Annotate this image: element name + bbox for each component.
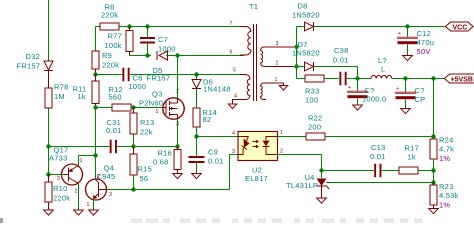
resistor R15 56 [130,147,152,190]
svg-text:FR157: FR157 [17,62,41,71]
capacitor C13 0.01 [370,143,386,177]
junction R15 bottom [131,187,135,191]
svg-text:4: 4 [234,94,237,100]
power flag VCC [446,22,474,32]
junction R9/R11/C6 [93,72,97,76]
svg-text:1%: 1% [439,201,450,210]
svg-text:22k: 22k [140,128,153,137]
svg-text:1: 1 [80,158,83,164]
svg-text:+5VSB: +5VSB [451,77,473,84]
svg-text:R77: R77 [108,32,123,41]
diode D5 FR157 [147,51,173,83]
svg-text:R22: R22 [308,114,323,123]
op-amp U2 EL817 optocoupler [232,130,283,183]
wire U4 ref [330,182,434,184]
diode D6 1N4148 [192,75,231,109]
svg-text:1: 1 [87,202,90,208]
svg-text:2: 2 [75,189,78,195]
resistor R33 100 [305,75,324,105]
svg-text:R16: R16 [158,149,173,158]
junction R12/R13/gate [131,105,135,109]
junction R22 row [431,134,435,138]
junction ref row [431,180,435,184]
wire pin3 vertical [296,27,298,67]
svg-text:A733: A733 [49,154,68,163]
resistor R11 1k [73,75,100,108]
ground C? 1000.0 [353,105,363,110]
ground Q4 emitter [89,210,99,215]
capacitor C38 0.01 [333,46,349,85]
capacitor C31 0.01 [106,118,122,153]
junction C? CP [403,76,407,80]
svg-text:4: 4 [232,131,235,137]
junction R14/C9/U2 pin4 [194,134,198,138]
wire U2 pin2 down [278,154,322,156]
svg-text:2: 2 [276,61,279,67]
wire Q4 base [95,156,97,180]
svg-text:Q3: Q3 [152,90,163,99]
wire +5VSB to divider [433,79,435,140]
svg-text:1: 1 [280,130,283,136]
capacitor C12 470u 50V [398,27,435,57]
svg-text:C13: C13 [371,143,386,152]
svg-text:C12: C12 [417,29,432,38]
svg-text:1k: 1k [78,92,86,101]
svg-text:R10: R10 [53,184,68,193]
svg-text:R13: R13 [140,118,155,127]
capacitor C? CP [396,79,426,109]
ground Q17 collector [74,210,84,215]
svg-text:1N4148: 1N4148 [203,85,231,94]
diode D32 FR157 [17,52,54,88]
svg-text:1%: 1% [439,154,450,163]
svg-text:EL817: EL817 [245,174,268,183]
wire to U2 pin4 [197,136,239,138]
ground R23 [429,209,439,214]
svg-text:P2N60: P2N60 [139,99,163,108]
svg-text:100k: 100k [105,41,122,50]
svg-text:1N5820: 1N5820 [292,49,320,58]
resistor R24 4.7k 1% [430,136,454,184]
wire +5VSB rail [392,78,445,80]
wire input to D32 [48,0,50,61]
junction D6 top [194,72,198,76]
svg-text:0.01: 0.01 [208,157,224,166]
capacitor C6 1000 [122,68,146,91]
junction R13 bottom [131,144,135,148]
wire gate [134,107,162,109]
resistor R16 0.68 [153,147,181,174]
svg-text:1: 1 [275,77,278,83]
junction C38/D7/rail [355,76,359,80]
resistor R23 4.53k 1% [430,182,459,210]
svg-text:3: 3 [232,149,235,155]
junction D5 anode / pin6 / Q3 drain [175,53,179,57]
resistor R12 560 [96,85,132,111]
ground C12 [403,56,413,61]
svg-text:6: 6 [230,50,233,56]
svg-text:+: + [348,85,351,91]
svg-text:0.01: 0.01 [106,126,122,135]
svg-text:C7: C7 [158,35,168,44]
wire to U2 pin3 [229,155,231,190]
svg-text:1k: 1k [408,153,416,162]
svg-text:R33: R33 [305,87,320,96]
wire emitter row [79,155,96,157]
power flag +5VSB [445,74,474,84]
wire Q4 collector rail [107,189,230,191]
wire Q3 source [177,119,179,147]
resistor R10 220k [45,175,70,211]
svg-text:TL431LP: TL431LP [286,181,318,190]
svg-text:50V: 50V [417,47,431,56]
wire R8 left leg down to R9 [95,27,97,52]
svg-text:5: 5 [233,68,236,74]
resistor R78 1M [45,83,69,109]
svg-text:220k: 220k [101,11,118,20]
svg-text:100: 100 [305,96,318,105]
svg-text:R78: R78 [54,83,69,92]
ground U4 [317,198,327,203]
resistor R17 1k [399,144,419,175]
junction R11/R12 [93,105,97,109]
svg-text:220k: 220k [102,61,119,70]
svg-text:C38: C38 [334,46,349,55]
svg-text:C?: C? [415,86,425,95]
svg-text:D32: D32 [26,52,41,61]
diode D7 1N5820 [292,40,320,71]
svg-text:560: 560 [109,93,122,102]
svg-text:VCC: VCC [453,25,468,32]
junction Q17 base node [46,172,50,176]
svg-text:R24: R24 [439,136,454,145]
transistor Q3 P2N60 (N-MOSFET) [139,89,184,128]
capacitor C? 1000.0 [348,79,387,106]
svg-text:C9: C9 [208,148,218,157]
junction R16 top [175,144,179,148]
svg-text:1000: 1000 [129,82,147,91]
junction C7 top [145,24,149,28]
svg-text:0.01: 0.01 [370,152,386,161]
resistor R14 82 [193,108,217,137]
wire top rail pin7 net [96,26,101,28]
wire snubber branch [296,67,298,79]
wire source rail [49,146,110,148]
svg-text:4.53k: 4.53k [439,191,459,200]
wire pin6 row [172,55,244,57]
wire D7 cathode to rail [314,66,358,68]
junction C12 [405,24,409,28]
svg-text:T1: T1 [249,2,258,11]
op-amp U4 TL431LP [286,171,330,199]
ground T1 pin4 [228,104,236,109]
svg-text:R17: R17 [405,144,420,153]
junction emitter/R11/Q4 base [93,153,97,157]
capacitor C9 0.01 [189,137,224,174]
svg-text:56: 56 [140,174,149,183]
resistor R77 100k [105,27,148,56]
svg-text:+: + [398,31,401,37]
svg-text:3: 3 [276,41,279,47]
junction U4 cathode [319,168,323,172]
ground R10 [44,210,54,215]
svg-text:1M: 1M [54,92,65,101]
svg-text:0.68: 0.68 [153,158,169,167]
svg-text:0.01: 0.01 [333,56,349,65]
svg-text:D8: D8 [298,2,308,11]
svg-text:220k: 220k [53,194,70,203]
inductor L7 [358,56,392,79]
svg-text:R15: R15 [138,165,153,174]
junction +5VSB branch [431,76,435,80]
resistor R13 22k [130,108,155,147]
junction C31 rail [46,144,50,148]
svg-text:1: 1 [156,109,159,115]
svg-text:CP: CP [415,95,426,104]
ground C9 [192,174,202,179]
svg-text:+: + [396,86,399,92]
svg-text:3: 3 [109,192,112,198]
resistor R8 220k [100,3,119,31]
wire VCC rail [314,26,446,28]
svg-text:R9: R9 [102,51,112,60]
ground C? CP [401,109,411,114]
svg-text:4.7k: 4.7k [439,145,454,154]
svg-text:2: 2 [97,174,100,180]
resistor R9 220k [92,51,119,75]
svg-text:R23: R23 [439,182,454,191]
wire Q3 drain [177,56,179,99]
junction C7/R77/D5 [145,53,149,57]
transformer T1 [230,2,295,104]
wire divider mid row [322,170,375,172]
diode D8 1N5820 [292,2,320,32]
ground R16 [173,174,183,179]
wire pin5 row [96,74,123,76]
svg-text:1N5820: 1N5820 [292,11,320,20]
junction R17 row [431,168,435,172]
resistor R22 200 [306,114,325,141]
decorative bottom band [0,218,422,223]
junction R77 top [127,24,131,28]
svg-text:2: 2 [280,149,283,155]
svg-text:82: 82 [203,115,212,124]
transistor Q4 C945 (NPN) [86,164,116,211]
svg-text:L: L [381,65,385,74]
wire R78 to base node [48,108,50,175]
svg-text:3: 3 [57,176,60,182]
junction D7 anode [294,64,298,68]
svg-text:200: 200 [308,123,321,132]
svg-text:470u: 470u [417,38,435,47]
capacitor C7 1000 [140,27,176,56]
transistor Q17 A733 (PNP) [49,146,83,211]
ground T1 pin1 [279,86,287,91]
svg-text:7: 7 [230,21,233,27]
svg-text:1000.0: 1000.0 [362,95,386,104]
wire R11 down to emitter node [95,108,97,156]
wire R22 to divider [325,136,434,138]
svg-text:1000: 1000 [158,45,176,54]
wire U2 pin1 to R22 [278,136,307,138]
